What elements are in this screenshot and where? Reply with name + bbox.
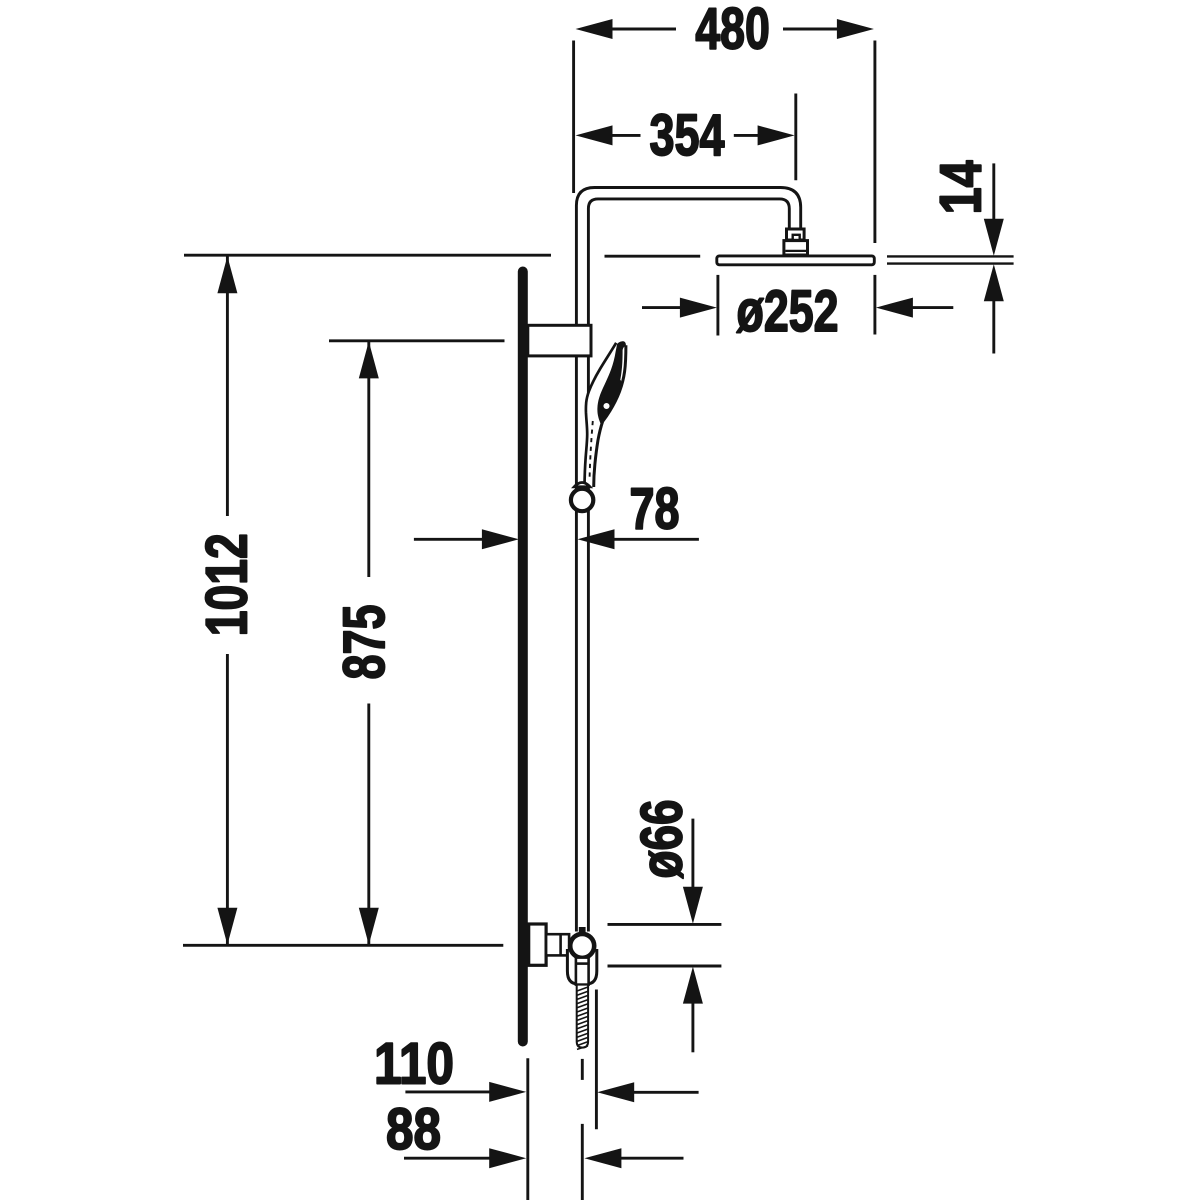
dim 110 line left [405,1090,491,1093]
centerline dash 1 [581,1059,584,1080]
dim 88 line right [618,1157,684,1160]
dim 14 line bottom [992,300,995,353]
slider knob [571,489,593,511]
wall reference line top [184,254,551,257]
dim 354 line right [734,134,760,137]
shower head flange [784,241,808,255]
dim 14 line top [992,163,995,220]
dim 1012 arrow bottom [217,908,237,945]
dim 110 arrow left [489,1082,526,1102]
reference line 875 top [329,339,505,342]
svg-text:ø66: ø66 [630,800,695,879]
svg-text:354: 354 [650,103,725,168]
dim 78 line right [612,538,699,541]
plate thickness reference line lower [887,262,1014,264]
centerline segment 2 [581,1124,584,1200]
shower head plate [717,256,875,265]
dim 1012 line upper [226,256,229,516]
connector nut notch [793,235,800,240]
flange inner line [785,250,806,252]
dim 480 line left [611,28,676,31]
wall extension line bottom [526,1058,529,1200]
valve connector divider [559,934,562,955]
hose threaded rod [577,985,588,1048]
svg-text:ø252: ø252 [737,279,839,344]
dim o252 arrow right [876,298,913,318]
wall bar [518,267,528,1047]
svg-text:480: 480 [695,0,770,62]
hose nut top line [576,962,589,965]
svg-text:88: 88 [386,1097,441,1162]
dim 88 line left [404,1157,492,1160]
valve body circle [570,934,594,958]
dim 875 line lower [367,704,370,945]
shower head connector nut [787,229,805,240]
dim 1012 line lower [226,654,229,945]
dim 875 arrow bottom [359,908,379,945]
dim 1012 arrow top [217,256,237,293]
dim 354 arrow right [758,125,795,145]
hand shower body fill [585,341,627,487]
wall elbow block [529,924,546,965]
dim 14 arrow top [984,219,1004,256]
wall reference line right of pipe [605,255,701,258]
dim o252 line right [912,306,954,309]
dim o252 extension right [873,275,876,335]
hand shower handle dashed line [590,421,593,477]
dim 354 extension right [794,94,797,181]
hand shower dark side blob [597,341,626,425]
dim 875 line upper [367,342,370,577]
dim o252 extension left [716,275,719,336]
svg-text:110: 110 [374,1032,454,1097]
plate thickness reference line upper [887,255,1014,257]
dim 480 line right [783,28,839,31]
dim 480 arrow left [576,19,613,39]
dim 480 arrow right [837,19,874,39]
dim 480 extension right [873,41,876,244]
dim 78 arrow left [482,529,519,549]
hose thread hatching [577,987,588,1049]
hand shower face left edge [586,343,616,413]
dim 354 line left [611,134,641,137]
dim o66 reference line bottom [608,965,722,968]
hose U holder [567,949,596,984]
hand shower head right edge [603,345,626,421]
hand shower handle right edge [594,422,603,488]
dim 88 arrow left [489,1148,526,1168]
svg-text:14: 14 [928,160,993,214]
slider collar [574,483,590,487]
dim 480 extension left [572,41,575,194]
valve stem nub [579,927,586,935]
slider bracket [528,325,591,356]
riser pipe inner contour [588,199,789,932]
dim 110 arrow right [597,1082,634,1102]
dim 875 arrow top [359,341,379,378]
hand shower handle left edge [585,413,588,487]
svg-text:875: 875 [332,605,397,680]
dim 78 line left [414,538,484,541]
dim o252 arrow left [680,298,717,318]
hose nut [576,958,589,985]
dim o66 arrow bottom [683,967,703,1004]
svg-text:1012: 1012 [194,533,259,636]
dim o66 arrow top [683,887,703,924]
riser pipe outer contour [576,188,800,932]
dim 110 extension right [595,990,598,1130]
dim 88 arrow right [584,1148,621,1168]
valve connector pipe [546,934,569,955]
svg-text:78: 78 [630,477,680,542]
dim o66 reference line top [608,923,722,926]
wall reference line bottom [183,944,503,947]
dim 110 line right [631,1091,699,1094]
hand shower button loop [602,402,611,411]
dim 78 arrow right [578,529,615,549]
dim o66 line top [691,819,694,889]
dim 354 arrow left [576,125,613,145]
dim o252 line left [642,306,681,309]
dim o66 line bottom [691,1003,694,1053]
dim 14 arrow bottom [984,264,1004,301]
